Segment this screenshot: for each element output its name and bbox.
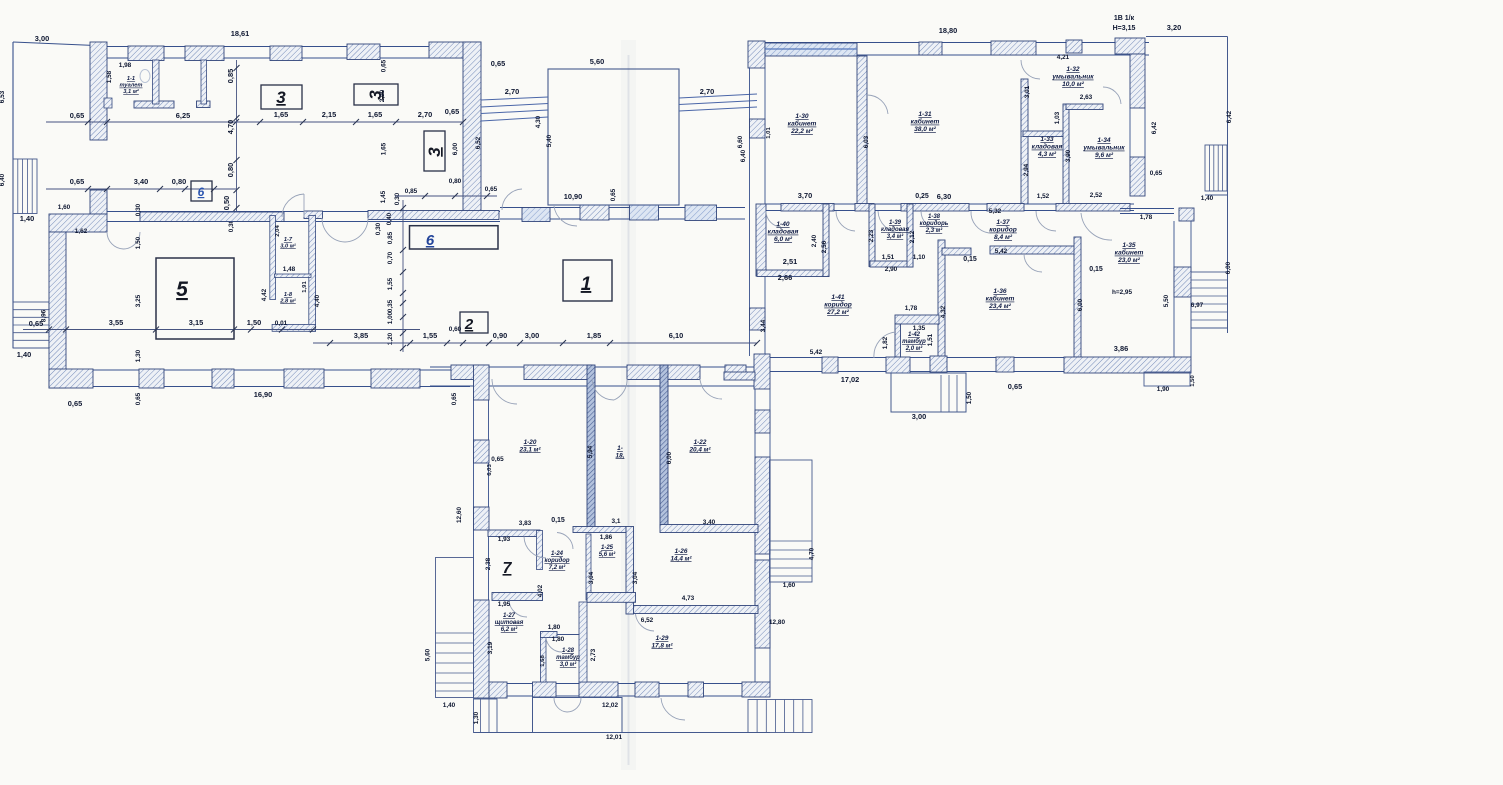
svg-text:3,00: 3,00 xyxy=(525,331,539,340)
svg-text:3,70: 3,70 xyxy=(798,191,812,200)
wall seg xyxy=(573,527,626,533)
door 1-34 top xyxy=(1103,87,1121,104)
1-35 top wall lines xyxy=(1120,208,1174,210)
svg-text:0,65: 0,65 xyxy=(68,399,82,408)
dim ticks xyxy=(234,65,240,71)
A north window seg xyxy=(270,46,302,61)
svg-text:1-8: 1-8 xyxy=(284,292,293,298)
porch rectangle xyxy=(548,69,679,205)
svg-text:3,1 м²: 3,1 м² xyxy=(123,88,140,95)
svg-text:5,32: 5,32 xyxy=(989,208,1002,215)
svg-text:1,58: 1,58 xyxy=(106,70,113,83)
svg-text:1-37: 1-37 xyxy=(996,219,1010,226)
toilet bar 2 xyxy=(197,101,211,108)
svg-text:7,2 м²: 7,2 м² xyxy=(549,564,566,571)
door xyxy=(921,211,939,229)
C bottom wall seg xyxy=(579,682,618,697)
door 1-30 xyxy=(867,95,888,114)
svg-text:1-7: 1-7 xyxy=(284,237,293,243)
svg-text:1,86: 1,86 xyxy=(600,534,613,541)
svg-text:1,30: 1,30 xyxy=(135,349,142,362)
svg-text:6,10: 6,10 xyxy=(669,331,683,340)
svg-text:6: 6 xyxy=(198,185,205,199)
dim col mid xyxy=(402,200,404,352)
1-40 left wall xyxy=(756,204,766,276)
A west wall xyxy=(49,232,66,388)
svg-text:6,00: 6,00 xyxy=(452,142,459,155)
svg-text:4,40: 4,40 xyxy=(314,294,321,307)
svg-text:1-27: 1-27 xyxy=(503,613,516,619)
svg-text:4,3 м²: 4,3 м² xyxy=(1037,151,1057,158)
svg-text:5,6 м²: 5,6 м² xyxy=(599,551,616,558)
svg-text:1-29: 1-29 xyxy=(656,635,669,642)
wall 1-31|1-33 xyxy=(1021,79,1028,204)
terrace right line xyxy=(1227,37,1229,334)
1-35 top wall hatch xyxy=(1179,208,1194,221)
C west window xyxy=(474,440,490,463)
tambour door arc xyxy=(554,698,567,713)
C NW corner xyxy=(474,365,490,400)
svg-text:3,25: 3,25 xyxy=(135,294,142,307)
wall top of 1-34 xyxy=(1066,104,1103,110)
wall 1-32|1-33 xyxy=(1023,131,1065,137)
door 1-35 xyxy=(1081,213,1112,240)
svg-text:3,04: 3,04 xyxy=(588,571,595,584)
svg-text:1,52: 1,52 xyxy=(1037,193,1050,200)
C SE corner xyxy=(742,682,770,697)
1-39 left wall xyxy=(869,204,875,267)
C top wall seg xyxy=(627,365,700,380)
ramp lines east of porch xyxy=(679,94,757,98)
A bottom wall seg xyxy=(371,369,420,388)
svg-text:кладовая: кладовая xyxy=(768,228,799,236)
svg-text:1-22: 1-22 xyxy=(694,439,707,446)
zone box 2 xyxy=(460,312,488,333)
svg-text:1-38: 1-38 xyxy=(928,214,941,220)
svg-text:коридор: коридор xyxy=(989,226,1017,234)
svg-text:3,4 м²: 3,4 м² xyxy=(887,233,904,240)
svg-text:0,85: 0,85 xyxy=(387,231,394,244)
B corridor wall seg xyxy=(781,204,834,212)
door 1-32 xyxy=(1021,60,1040,79)
A bottom wall seg xyxy=(49,369,93,388)
B corridor wall seg xyxy=(901,204,969,212)
svg-text:0,40: 0,40 xyxy=(386,212,393,225)
svg-text:3,40: 3,40 xyxy=(134,177,148,186)
door 1-24 xyxy=(557,533,573,550)
wall 1-30|1-31 xyxy=(857,56,867,204)
wall top 1-26 xyxy=(660,525,758,533)
svg-text:1,80: 1,80 xyxy=(548,624,561,631)
svg-text:1,50: 1,50 xyxy=(966,391,973,404)
svg-text:1,62: 1,62 xyxy=(75,228,88,235)
corridor top wall seg xyxy=(580,205,609,220)
A toilet west wall xyxy=(90,42,107,140)
1-35 east window xyxy=(1174,267,1191,297)
1-39 right wall xyxy=(907,204,913,267)
svg-text:0,01: 0,01 xyxy=(275,320,288,327)
svg-text:2,70: 2,70 xyxy=(505,87,519,96)
svg-text:4,70: 4,70 xyxy=(226,120,235,134)
svg-text:3,40: 3,40 xyxy=(703,519,716,526)
svg-text:0,65: 0,65 xyxy=(491,456,504,463)
wall seg xyxy=(587,593,636,603)
wall 1-21|1-22 xyxy=(660,365,668,528)
svg-text:2: 2 xyxy=(464,316,474,333)
svg-text:туалет: туалет xyxy=(120,83,143,89)
svg-text:2,0 м²: 2,0 м² xyxy=(905,345,923,352)
B north wall seg xyxy=(991,41,1036,55)
A north window seg xyxy=(128,46,164,61)
door 1-28 xyxy=(546,638,562,653)
svg-text:1,10: 1,10 xyxy=(913,254,926,261)
A north window seg xyxy=(185,46,224,61)
1-40 right wall xyxy=(823,204,829,277)
1-39 bottom wall xyxy=(870,261,913,267)
svg-text:1,82: 1,82 xyxy=(882,336,889,349)
corridor top wall seg xyxy=(522,208,550,222)
svg-text:1-26: 1-26 xyxy=(675,548,688,555)
svg-text:5,60: 5,60 xyxy=(590,57,604,66)
svg-text:2,73: 2,73 xyxy=(590,648,597,661)
svg-text:0,60: 0,60 xyxy=(449,326,462,333)
svg-text:1-24: 1-24 xyxy=(551,551,564,557)
svg-text:2,70: 2,70 xyxy=(418,110,432,119)
wall top 1-29 xyxy=(634,606,759,614)
svg-text:5,40: 5,40 xyxy=(546,134,553,147)
svg-text:1,40: 1,40 xyxy=(17,350,31,359)
wall foot xyxy=(855,204,874,211)
door 1-22 xyxy=(700,379,722,399)
svg-text:2,66: 2,66 xyxy=(778,273,792,282)
C tambour porch xyxy=(533,698,623,733)
room5 top wall xyxy=(140,212,284,222)
svg-text:1,90: 1,90 xyxy=(1157,386,1170,393)
svg-text:23,4 м²: 23,4 м² xyxy=(988,303,1012,310)
B SW corner xyxy=(754,354,770,389)
svg-text:22,2 м²: 22,2 м² xyxy=(790,128,814,135)
door 1-20 xyxy=(492,379,517,404)
svg-text:1,93: 1,93 xyxy=(498,536,511,543)
svg-text:0,85: 0,85 xyxy=(405,188,418,195)
svg-text:умывальник: умывальник xyxy=(1082,145,1125,152)
svg-text:1,65: 1,65 xyxy=(274,110,288,119)
svg-text:4,73: 4,73 xyxy=(682,595,695,602)
svg-text:1-25: 1-25 xyxy=(601,545,614,551)
svg-text:0,65: 0,65 xyxy=(491,59,505,68)
svg-text:6,2 м²: 6,2 м² xyxy=(501,626,518,633)
svg-text:6,0 м²: 6,0 м² xyxy=(774,236,793,243)
svg-text:4,02: 4,02 xyxy=(537,584,544,597)
svg-text:5: 5 xyxy=(176,278,188,301)
svg-text:3,01: 3,01 xyxy=(1024,85,1031,98)
door 1-21 left xyxy=(592,379,614,400)
svg-text:2,04: 2,04 xyxy=(275,225,281,237)
A top edge xyxy=(13,42,107,46)
svg-text:0,65: 0,65 xyxy=(1008,382,1022,391)
svg-text:1,55: 1,55 xyxy=(423,331,437,340)
B east window xyxy=(1130,157,1145,196)
svg-text:0,80: 0,80 xyxy=(172,177,186,186)
B NW corner xyxy=(748,41,765,68)
svg-text:кладовая: кладовая xyxy=(1032,143,1063,151)
svg-text:1,40: 1,40 xyxy=(443,702,456,709)
B north wall seg xyxy=(1066,40,1082,53)
svg-text:1,30: 1,30 xyxy=(473,711,480,724)
C SW corner foot xyxy=(489,682,507,698)
svg-text:1,95: 1,95 xyxy=(498,601,511,608)
svg-text:6,53: 6,53 xyxy=(0,90,6,103)
svg-text:1,68: 1,68 xyxy=(540,655,546,667)
dim row A1 xyxy=(46,121,463,123)
svg-text:18,: 18, xyxy=(616,452,625,459)
B NE corner lower xyxy=(1130,54,1145,108)
A north window seg xyxy=(347,44,380,60)
svg-text:1,65: 1,65 xyxy=(381,142,388,155)
svg-text:6: 6 xyxy=(426,232,435,249)
corridor top wall seg xyxy=(368,211,499,220)
tambour 1-42 top wall xyxy=(895,315,939,324)
wall 1-38|1-36 xyxy=(938,240,945,357)
svg-text:0,30: 0,30 xyxy=(135,203,142,216)
svg-text:1-32: 1-32 xyxy=(1066,66,1080,73)
svg-text:5,94: 5,94 xyxy=(587,445,594,458)
C east wall lines xyxy=(754,389,756,682)
svg-text:1-40: 1-40 xyxy=(776,221,790,228)
svg-text:0,65: 0,65 xyxy=(610,188,617,201)
B bottom wall seg xyxy=(996,357,1014,372)
C top wall seg xyxy=(451,365,489,380)
A bottom wall seg xyxy=(284,369,324,388)
door 1-36 xyxy=(1024,254,1042,272)
rooms 1-7 1-8 walls xyxy=(270,216,276,300)
toilet bar 1 xyxy=(134,101,174,108)
svg-text:12,80: 12,80 xyxy=(769,619,785,626)
svg-text:1-39: 1-39 xyxy=(889,220,902,226)
door 1-29 xyxy=(636,614,655,631)
svg-text:3,1: 3,1 xyxy=(612,518,621,525)
svg-text:3,85: 3,85 xyxy=(354,331,368,340)
svg-text:0,65: 0,65 xyxy=(381,59,388,72)
svg-text:6,97: 6,97 xyxy=(1191,302,1204,309)
double door arc left xyxy=(107,232,124,249)
1-28 top opening line xyxy=(557,634,587,636)
dim ticks xyxy=(85,119,91,125)
dim ticks xyxy=(327,340,333,346)
svg-text:1,35: 1,35 xyxy=(913,325,926,332)
svg-text:тамбур: тамбур xyxy=(556,654,580,661)
svg-text:1,03: 1,03 xyxy=(1054,111,1061,124)
svg-text:5,60: 5,60 xyxy=(425,648,432,661)
1-40 bottom wall xyxy=(757,270,829,277)
svg-text:1,55: 1,55 xyxy=(387,277,394,290)
svg-text:14,4 м²: 14,4 м² xyxy=(670,555,692,562)
svg-text:5,42: 5,42 xyxy=(995,248,1008,255)
svg-text:38,0 м²: 38,0 м² xyxy=(914,126,937,133)
svg-text:2,90: 2,90 xyxy=(885,266,898,273)
svg-text:9,6 м²: 9,6 м² xyxy=(1095,152,1114,159)
svg-text:2,8 м²: 2,8 м² xyxy=(279,297,297,304)
svg-text:6,60: 6,60 xyxy=(737,135,744,148)
svg-text:0,25: 0,25 xyxy=(915,193,929,200)
box 6 small xyxy=(191,181,212,201)
svg-text:0,50: 0,50 xyxy=(222,196,231,210)
B north wall lines xyxy=(748,42,1149,44)
svg-text:1-42: 1-42 xyxy=(908,332,921,338)
svg-text:8,4 м²: 8,4 м² xyxy=(994,234,1013,241)
C bottom outer line xyxy=(474,732,770,734)
svg-text:4,32: 4,32 xyxy=(940,305,947,318)
svg-text:12,60: 12,60 xyxy=(456,507,463,523)
svg-text:6,03: 6,03 xyxy=(863,135,870,148)
door arc 1 xyxy=(282,194,304,217)
svg-text:3,55: 3,55 xyxy=(109,318,123,327)
svg-text:12,01: 12,01 xyxy=(606,734,622,741)
svg-text:1-30: 1-30 xyxy=(795,113,809,120)
svg-text:5,42: 5,42 xyxy=(810,349,823,356)
B corridor wall lines xyxy=(765,203,1134,205)
svg-text:3,00: 3,00 xyxy=(35,34,49,43)
door 1-36 hall xyxy=(1036,211,1056,231)
dim row A3 xyxy=(23,329,420,331)
B bottom wall seg xyxy=(930,356,947,372)
A bottom wall seg xyxy=(139,369,164,388)
svg-text:1,01: 1,01 xyxy=(766,127,772,139)
B north wall seg xyxy=(919,42,942,55)
B east wall lines upper xyxy=(1129,108,1131,157)
A north wall lines xyxy=(107,46,463,48)
dim col A xyxy=(236,60,238,214)
svg-text:5,50: 5,50 xyxy=(1163,294,1170,307)
svg-text:3,04: 3,04 xyxy=(632,571,639,584)
svg-text:0,80: 0,80 xyxy=(449,178,462,185)
door 1-41 to tambour xyxy=(874,332,896,358)
stairs left upper xyxy=(13,159,37,214)
porch C right xyxy=(770,460,813,582)
double door arc down-left xyxy=(322,218,345,242)
B bottom wall lines xyxy=(754,357,1191,359)
C bottom wall seg xyxy=(533,682,557,697)
page fold shading xyxy=(621,40,636,770)
door arc under porch xyxy=(554,206,577,226)
svg-text:кабинет: кабинет xyxy=(788,120,817,128)
svg-text:0,65: 0,65 xyxy=(485,186,498,193)
svg-text:6,40: 6,40 xyxy=(0,173,6,186)
svg-text:1,78: 1,78 xyxy=(905,305,918,312)
svg-text:1,78: 1,78 xyxy=(1140,214,1153,221)
svg-text:0,65: 0,65 xyxy=(70,111,84,120)
svg-text:2,23: 2,23 xyxy=(868,229,875,242)
B west window xyxy=(750,119,766,138)
svg-text:6,03: 6,03 xyxy=(487,464,493,476)
terrace top line xyxy=(1146,36,1228,38)
A wall seg below door xyxy=(90,190,107,214)
svg-text:1,80: 1,80 xyxy=(552,636,565,643)
svg-text:1-41: 1-41 xyxy=(831,294,845,301)
svg-text:0,85: 0,85 xyxy=(226,69,235,83)
B bottom wall seg long xyxy=(1064,357,1191,373)
svg-text:3,86: 3,86 xyxy=(1114,344,1128,353)
dim ticks xyxy=(46,327,52,333)
page fold line xyxy=(628,55,630,765)
svg-text:Н=3,15: Н=3,15 xyxy=(1113,25,1136,32)
door 1-27 xyxy=(509,601,527,618)
svg-text:0,65: 0,65 xyxy=(135,392,142,405)
svg-text:2,51: 2,51 xyxy=(783,257,797,266)
svg-text:тамбур: тамбур xyxy=(902,338,926,345)
svg-text:0,90: 0,90 xyxy=(493,331,507,340)
B north window band xyxy=(765,43,857,56)
svg-text:2,56: 2,56 xyxy=(821,240,828,253)
svg-text:2,90: 2,90 xyxy=(379,89,386,102)
svg-text:коридор: коридор xyxy=(824,301,852,309)
svg-text:кабинет: кабинет xyxy=(911,118,940,126)
zone box 6 long xyxy=(410,226,499,249)
svg-text:1-33: 1-33 xyxy=(1040,136,1054,143)
svg-text:2,12: 2,12 xyxy=(909,230,916,243)
svg-text:23,1 м²: 23,1 м² xyxy=(518,446,541,453)
svg-text:6,52: 6,52 xyxy=(641,617,654,624)
corridor top wall seg xyxy=(685,205,717,221)
C east wall hatch lower xyxy=(755,560,770,648)
svg-text:3,0 м²: 3,0 м² xyxy=(280,242,297,249)
svg-text:3,90: 3,90 xyxy=(1065,149,1072,162)
A bottom wall seg xyxy=(212,369,234,388)
door arc corridor xyxy=(502,189,522,210)
svg-text:4,21: 4,21 xyxy=(1057,54,1070,61)
svg-text:0,65: 0,65 xyxy=(445,107,459,116)
svg-text:4,42: 4,42 xyxy=(261,288,268,301)
svg-text:умывальник: умывальник xyxy=(1051,74,1094,81)
wall 1-25|1-26 xyxy=(626,527,634,615)
svg-text:1-: 1- xyxy=(617,445,623,452)
dim ticks xyxy=(85,186,91,192)
svg-text:1,50: 1,50 xyxy=(1190,375,1196,387)
svg-text:3,20: 3,20 xyxy=(1167,23,1181,32)
wall jut 1-38 xyxy=(942,248,971,255)
dim ticks xyxy=(400,205,406,211)
wall 1-36|1-35 xyxy=(1074,237,1081,357)
svg-text:6,00: 6,00 xyxy=(666,451,673,464)
door 1-37 xyxy=(971,211,989,233)
A bottom-left connector xyxy=(13,347,49,349)
tambour B porch xyxy=(891,373,966,412)
svg-text:кабинет: кабинет xyxy=(1115,249,1144,257)
svg-text:h=2,95: h=2,95 xyxy=(1112,289,1133,296)
door 1-20 south xyxy=(524,537,546,559)
wall top 1-27 area xyxy=(488,530,540,537)
B corridor wall seg xyxy=(987,204,1024,212)
svg-text:0,30: 0,30 xyxy=(394,192,401,205)
window line xyxy=(765,48,857,50)
C top wall seg xyxy=(524,365,592,380)
svg-text:3,0 м²: 3,0 м² xyxy=(560,661,577,668)
C bottom wall seg xyxy=(635,682,659,697)
svg-text:1,60: 1,60 xyxy=(58,204,71,211)
corridor top wall seg xyxy=(630,205,659,220)
tambour door arc xyxy=(567,698,581,713)
svg-text:17,8 м²: 17,8 м² xyxy=(651,642,673,649)
A bottom wall lines xyxy=(49,369,470,371)
svg-text:4,70: 4,70 xyxy=(809,547,816,560)
svg-text:2,70: 2,70 xyxy=(700,87,714,96)
door arc below C bottom wall xyxy=(661,698,685,720)
wall 1-37|1-36 xyxy=(990,246,1076,254)
stairs left lower xyxy=(13,302,49,348)
C bottom wall seg xyxy=(688,682,704,697)
svg-text:0,15: 0,15 xyxy=(1089,266,1103,273)
A left outer edge xyxy=(12,42,14,348)
